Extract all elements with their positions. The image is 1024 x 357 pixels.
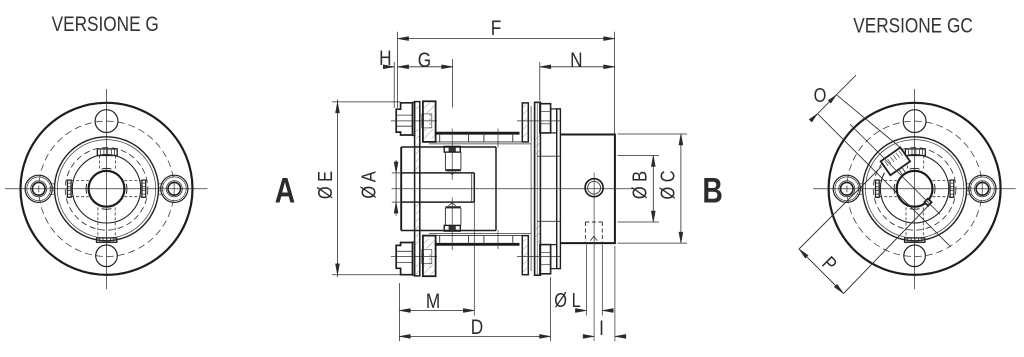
svg-text:B: B xyxy=(702,171,722,211)
svg-text:Ø A: Ø A xyxy=(357,171,380,199)
svg-text:VERSIONE G: VERSIONE G xyxy=(52,14,159,37)
svg-text:Ø C: Ø C xyxy=(656,170,679,199)
svg-text:A: A xyxy=(275,171,295,211)
svg-text:Ø E: Ø E xyxy=(314,171,337,199)
svg-text:O: O xyxy=(814,83,827,106)
svg-text:D: D xyxy=(471,317,483,340)
svg-text:M: M xyxy=(426,291,440,314)
svg-text:Ø L: Ø L xyxy=(554,288,580,311)
svg-text:H: H xyxy=(379,47,391,70)
svg-text:N: N xyxy=(570,50,582,73)
svg-text:I: I xyxy=(599,318,604,341)
svg-text:VERSIONE GC: VERSIONE GC xyxy=(853,15,973,38)
svg-text:Ø B: Ø B xyxy=(628,171,651,199)
svg-text:G: G xyxy=(418,50,431,73)
svg-text:F: F xyxy=(491,18,502,41)
